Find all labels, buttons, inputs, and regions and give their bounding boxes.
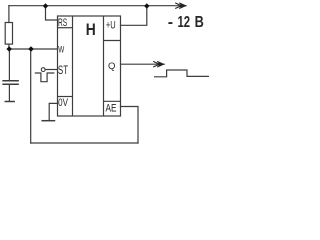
junction dot top-right	[144, 3, 149, 9]
svg-text:0V: 0V	[58, 97, 68, 109]
wire resistor bottom to W rail	[8, 44, 10, 49]
Q output pulse waveform	[154, 70, 209, 77]
IC divider left column	[72, 16, 74, 116]
wire RS drop from top rail	[46, 6, 58, 20]
IC divider above 0V	[58, 96, 73, 98]
IC divider below +U	[104, 40, 121, 42]
wire W rail	[9, 48, 58, 50]
IC divider above AE	[104, 100, 121, 102]
wire capacitor bottom lead	[8, 85, 10, 101]
IC U1 box	[58, 16, 121, 116]
wire capacitor top lead	[8, 49, 10, 80]
wire 0V to ground	[49, 103, 57, 120]
ground bar at 0V	[42, 120, 54, 122]
arrow at top rail (supply)	[175, 3, 186, 9]
svg-text:Q: Q	[108, 61, 115, 72]
resistor R	[5, 23, 12, 45]
wire Q output	[121, 63, 161, 65]
capacitor C top plate	[3, 80, 18, 82]
junction dot top-left	[43, 3, 48, 9]
svg-text:W: W	[58, 44, 64, 54]
ST negative pulse waveform	[35, 73, 55, 82]
pulse input circle at ST	[41, 68, 45, 72]
svg-text:AE: AE	[106, 102, 117, 114]
wire ST input	[45, 69, 58, 71]
svg-text:12: 12	[178, 14, 191, 31]
junction dot W-resistor	[6, 46, 12, 52]
IC divider right column	[103, 16, 105, 116]
svg-text:В: В	[195, 14, 204, 31]
IC divider below RS	[58, 27, 73, 29]
wire AE feedback right	[121, 107, 139, 144]
svg-text:+U: +U	[106, 20, 116, 32]
wire +U drop from top rail	[121, 6, 147, 26]
ground bar under capacitor	[5, 101, 14, 103]
wire left vertical from top rail to resistor	[8, 6, 10, 23]
capacitor C bottom plate	[3, 83, 18, 85]
junction dot W-feedback	[28, 46, 34, 52]
svg-text:H: H	[86, 20, 96, 39]
wire feedback left vertical to W rail	[30, 49, 32, 143]
svg-text:-: -	[168, 14, 173, 31]
wire top rail	[9, 5, 184, 7]
arrow at Q output	[153, 61, 165, 67]
wire feedback bottom	[31, 142, 138, 144]
svg-text:RS: RS	[58, 17, 67, 29]
svg-text:ST: ST	[58, 63, 69, 77]
